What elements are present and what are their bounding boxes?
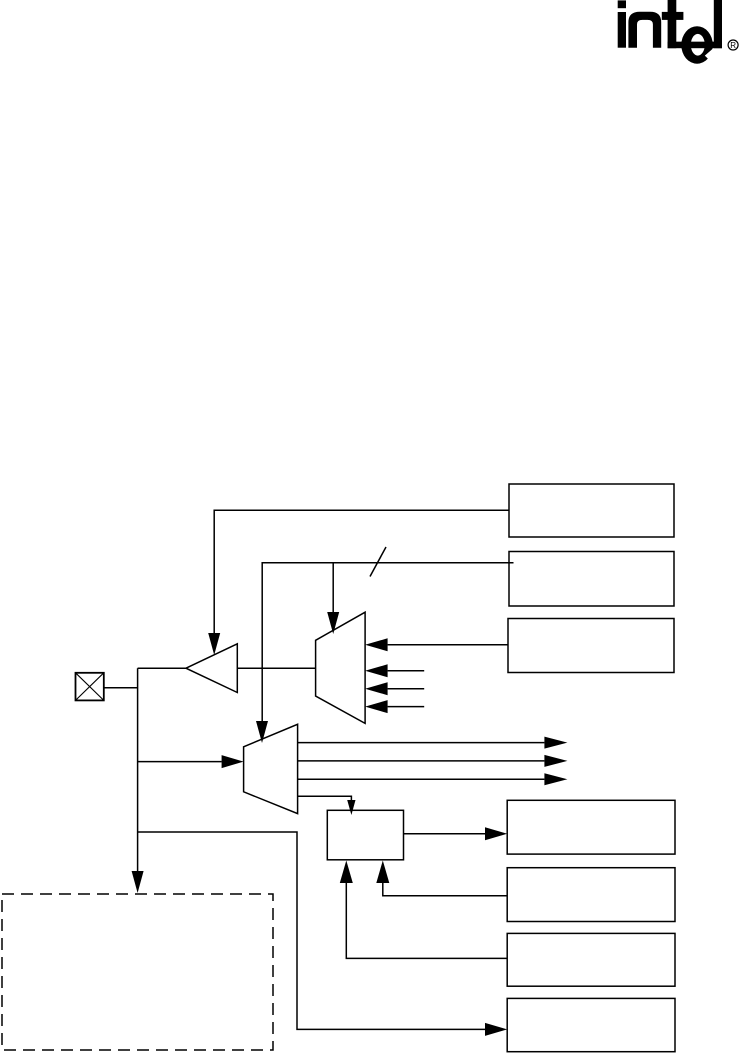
- logo letter t crossbar: [662, 12, 684, 20]
- wire mux1 to buffer: [237, 667, 315, 669]
- arrowhead into dashed block: [132, 871, 144, 893]
- mux2 output wire 1: [298, 742, 545, 744]
- trunk vertical wire: [137, 668, 139, 871]
- arrowhead into register box bottom left: [340, 861, 353, 884]
- wire trunk to mux2 input: [138, 761, 222, 763]
- wire crossed box to trunk: [104, 687, 138, 689]
- logo letter l: [714, 0, 722, 48]
- mux1 stub input 3: [388, 688, 425, 690]
- bus slash: [370, 547, 386, 577]
- block box3: [508, 619, 674, 673]
- mux2 output wire 3: [298, 778, 545, 780]
- dashed block bottom-left: [2, 894, 273, 1050]
- arrowhead into mux2 input: [222, 755, 244, 768]
- logo letter e aperture: [705, 48, 718, 59]
- arrowhead mux2 out1: [544, 737, 567, 749]
- small register box: [327, 810, 403, 860]
- logo letter i stem: [618, 12, 626, 48]
- wire box2 trunk to mux2 select: [262, 563, 513, 721]
- arrowhead into box4: [485, 827, 507, 840]
- arrowhead stub2 into mux1: [365, 664, 388, 677]
- arrowhead into mux1 select: [327, 612, 339, 634]
- arrowhead into buffer top: [208, 633, 220, 655]
- mux1 stub input 2: [388, 670, 425, 672]
- arrowhead into mux2 select: [256, 721, 268, 743]
- arrowhead mux2 out3: [544, 773, 567, 785]
- logo letter e ring: [681, 26, 713, 64]
- block box4: [507, 800, 675, 854]
- block box1 top-right: [509, 484, 674, 537]
- wire buffer to trunk: [138, 667, 186, 669]
- intel logo: [618, 0, 738, 64]
- logo letter n: [628, 12, 661, 48]
- arrowhead mux2 out2: [544, 755, 567, 767]
- logo letter e bar: [668, 42, 722, 49]
- wire mux2 to register box: [298, 796, 352, 800]
- wire box6 to register box: [346, 883, 507, 958]
- wire register box to box4: [404, 833, 486, 835]
- wire branch to mux1 select: [332, 563, 334, 612]
- logo letter t stem: [668, 0, 677, 48]
- svg-text:R: R: [730, 41, 736, 50]
- crossed terminal box: [76, 673, 104, 701]
- block box2: [509, 552, 674, 607]
- mux1 stub input 4: [388, 706, 425, 708]
- wire trunk branch to box7: [138, 832, 485, 1029]
- arrowhead into register box bottom right: [376, 861, 389, 884]
- mux M2: [244, 724, 298, 813]
- block box5: [507, 868, 675, 922]
- block box7: [507, 998, 675, 1051]
- arrowhead into box7: [485, 1023, 507, 1036]
- logo letter i dot: [618, 0, 626, 8]
- wire box1 to buffer: [214, 510, 509, 633]
- arrowhead stub4 into mux1: [365, 700, 388, 713]
- mux M1: [316, 612, 366, 723]
- arrowhead box3 into mux1: [365, 638, 388, 651]
- arrowhead into register box top: [347, 800, 355, 815]
- wire box3 to mux1 input: [388, 644, 508, 646]
- registered trademark symbol: [728, 40, 738, 50]
- mux2 output wire 2: [298, 760, 545, 762]
- wire box5 to register box: [383, 883, 507, 896]
- block box6: [507, 933, 675, 986]
- arrowhead stub3 into mux1: [365, 682, 388, 695]
- buffer triangle: [186, 644, 237, 693]
